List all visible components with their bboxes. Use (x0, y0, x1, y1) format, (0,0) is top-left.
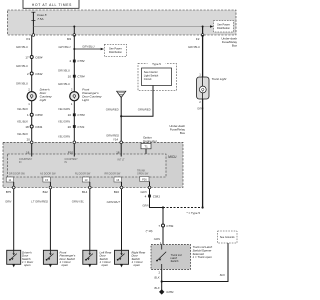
svg-text:18: 18 (116, 151, 120, 155)
svg-text:* = Type 5: * = Type 5 (187, 211, 201, 215)
svg-text:Y14: Y14 (113, 137, 118, 141)
driver's door switch (7, 250, 35, 267)
svg-text:GRN/YEL: GRN/YEL (72, 200, 85, 204)
svg-text:MICU: MICU (168, 155, 177, 159)
arrow into see power distribution (210, 25, 213, 28)
svg-text:See Power: See Power (109, 46, 122, 50)
svg-text:Distribution: Distribution (109, 50, 123, 54)
boundary circle GRN/RED wire (120, 141, 123, 144)
svg-text:F2: F2 (196, 37, 200, 41)
svg-text:GRY/BLU: GRY/BLU (16, 82, 29, 86)
junction F2 drop (202, 26, 204, 28)
ground G701 (159, 289, 174, 294)
svg-text:YEL/BLK: YEL/BLK (17, 107, 28, 111)
svg-text:10: 10 (68, 113, 72, 117)
ground wire from see grounds box (162, 243, 228, 282)
svg-text:LT GRN/RED: LT GRN/RED (31, 200, 48, 204)
svg-text:See Power: See Power (217, 22, 230, 26)
svg-text:Light: Light (40, 98, 47, 102)
svg-text:YEL/GRN: YEL/GRN (58, 107, 71, 111)
svg-text:GRY/BLU: GRY/BLU (58, 45, 71, 49)
svg-text:G701: G701 (166, 290, 174, 294)
svg-text:YEL/BLK: YEL/BLK (17, 132, 28, 136)
svg-text:OPEN SW: OPEN SW (137, 173, 149, 176)
connector C581 (145, 194, 161, 198)
connector C791 (146, 224, 174, 233)
junction M3 drop (73, 26, 75, 28)
svg-text:17: 17 (25, 55, 29, 59)
svg-text:GRN: GRN (197, 106, 204, 110)
boundary circle wire A (12, 186, 15, 189)
svg-text:Light: Light (82, 98, 89, 102)
svg-text:open: open (102, 263, 109, 267)
svg-text:B12: B12 (43, 190, 49, 194)
svg-text:20: 20 (27, 137, 31, 141)
connector C650 (27, 113, 43, 117)
connector circle at K3 boundary (32, 34, 35, 37)
svg-text:RL DOOR SW: RL DOOR SW (75, 173, 91, 176)
svg-text:1 = Trunk open: 1 = Trunk open (193, 255, 213, 259)
svg-text:Circuit: Circuit (144, 77, 152, 81)
junction BLK (161, 280, 163, 282)
boundary circle wire E (148, 186, 151, 189)
svg-text:10: 10 (68, 74, 72, 78)
connector circle at F2 boundary (201, 34, 204, 37)
svg-text:C654: C654 (35, 55, 43, 59)
svg-text:YEL/GRN: YEL/GRN (58, 120, 71, 124)
svg-text:P26: P26 (142, 178, 147, 182)
svg-text:HOT AT ALL TIMES: HOT AT ALL TIMES (32, 3, 72, 7)
connector C632 (27, 72, 43, 76)
driver's door courtesy light (27, 88, 52, 102)
svg-text:Box: Box (232, 44, 238, 48)
connector C721 (68, 125, 85, 129)
svg-text:C783: C783 (77, 113, 85, 117)
see interior light switch circuit box (142, 68, 172, 86)
svg-text:GRN: GRN (142, 204, 149, 208)
MICU internal text courtesy in col2 (65, 158, 79, 164)
junction dot type5 branch (162, 206, 164, 208)
svg-text:DR DOOR SW: DR DOOR SW (9, 173, 26, 176)
option connector T1 (141, 143, 151, 148)
wire from interior light switch box down (121, 86, 153, 117)
svg-text:GRN/WHT: GRN/WHT (107, 200, 121, 204)
svg-text:YEL/GRN: YEL/GRN (58, 134, 71, 138)
svg-text:GRY/BLU: GRY/BLU (58, 82, 71, 86)
wire: power bus horizontal (33, 26, 211, 28)
svg-text:C581: C581 (153, 194, 161, 198)
svg-text:7.5A: 7.5A (37, 17, 43, 21)
wire col1 from K3 down to light (31, 35, 33, 92)
trunk lid latch switch box (151, 245, 191, 270)
wire A down from pin 11 (13, 182, 15, 250)
arrowhead branch (101, 48, 104, 51)
trunk light (197, 77, 227, 99)
svg-text:20: 20 (68, 125, 72, 129)
svg-text:B75: B75 (6, 190, 12, 194)
svg-text:P10: P10 (68, 150, 73, 154)
svg-text:GRY/BLU: GRY/BLU (16, 45, 29, 49)
svg-text:GRY/BLU: GRY/BLU (82, 44, 95, 48)
label trunk lid latch switch (193, 245, 213, 259)
MICU pin box 11 (6, 177, 14, 182)
svg-text:open: open (62, 263, 69, 267)
MICU box (8, 154, 167, 177)
splice triangle (interior light circuit) (117, 91, 126, 97)
svg-text:B16: B16 (114, 190, 120, 194)
svg-text:Type 5: Type 5 (152, 62, 161, 66)
label option connector (143, 135, 157, 142)
svg-text:K3: K3 (26, 37, 30, 41)
label under-dash fuse/relay box (middle) (169, 124, 185, 135)
svg-text:IN: IN (65, 161, 68, 164)
wire: fuse to K3 exit (32, 21, 34, 35)
connector C782 (69, 59, 85, 63)
MICU pin box 13 (82, 177, 90, 182)
wire col2 from M3 to light (73, 35, 75, 92)
dashed type5 wire to trunk light (163, 207, 203, 209)
under-dash fuse/relay box (middle outer) (3, 142, 183, 187)
MICU pin box 16 (114, 177, 122, 182)
svg-text:(* 10): (* 10) (146, 229, 153, 233)
wire col1 below light to MICU (31, 100, 33, 156)
boundary circle wire B (49, 186, 52, 189)
under-dash fuse/relay box (top) (8, 10, 237, 35)
svg-text:C631: C631 (35, 125, 43, 129)
svg-text:RR DOOR SW: RR DOOR SW (105, 173, 122, 176)
svg-text:BLK: BLK (154, 276, 159, 280)
title box HOT AT ALL TIMES (23, 0, 79, 8)
junction on col2 for branch (73, 48, 75, 50)
svg-text:open: open (24, 263, 31, 267)
fuse 8 (7.5A) (31, 12, 46, 21)
wire col2 below light to MICU (73, 100, 75, 156)
label under-dash fuse/relay box (top) (221, 37, 237, 48)
svg-text:C721: C721 (77, 125, 85, 129)
boundary circle col2 (73, 141, 76, 144)
connector C654 (25, 55, 42, 59)
connector C631 (25, 125, 42, 129)
front passenger's door courtesy light (70, 88, 102, 102)
left rear door switch (83, 250, 113, 267)
trunk light wire to type5 junction (202, 99, 204, 208)
svg-text:C784: C784 (77, 74, 85, 78)
wire from triangle down to MICU (120, 98, 122, 157)
see grounds box (218, 231, 238, 243)
right rear door switch (115, 250, 147, 267)
wire E trunk latch from P26 (150, 182, 164, 245)
svg-text:C782: C782 (77, 59, 85, 63)
boundary circle wire C (89, 186, 92, 189)
MICU pin box P26 (140, 177, 149, 182)
svg-text:Box: Box (180, 131, 186, 135)
svg-text:AS DOOR SW: AS DOOR SW (40, 173, 56, 176)
see power distribution box (top right) (214, 21, 234, 33)
svg-text:Trunk Light: Trunk Light (212, 77, 227, 81)
wire: drop to F2 (202, 27, 204, 36)
svg-text:C650: C650 (35, 113, 43, 117)
wire trunk latch to ground (161, 270, 163, 292)
svg-text:YEL/BLK: YEL/BLK (17, 120, 28, 124)
MICU pin box 15 (43, 177, 51, 182)
svg-text:Switch: Switch (171, 259, 179, 263)
see power distribution box (mid) (104, 44, 126, 56)
junction GRN/RED merge (120, 115, 122, 117)
svg-text:T1: T1 (144, 145, 148, 149)
trunk light wire down (202, 35, 204, 77)
svg-text:GRN/RED: GRN/RED (106, 108, 119, 112)
type 5 dashed box (138, 62, 177, 91)
wire branch to see power distribution (74, 48, 102, 50)
svg-text:BLK: BLK (154, 286, 159, 290)
svg-text:Connector: Connector (143, 139, 157, 143)
connector C783 (68, 113, 85, 117)
svg-text:C791: C791 (166, 224, 174, 228)
svg-text:16: 16 (26, 150, 30, 154)
svg-text:Distribution: Distribution (217, 26, 231, 30)
connector circle at M3 boundary (73, 34, 76, 37)
wire B down from pin 15 (49, 182, 51, 250)
svg-text:See Interior: See Interior (144, 70, 158, 74)
junction dot trunk light wire end (202, 206, 204, 208)
svg-text:open: open (134, 263, 141, 267)
wire D down from pin 16 (121, 182, 123, 250)
svg-text:GRN/RED: GRN/RED (138, 108, 151, 112)
svg-text:IN: IN (19, 161, 22, 164)
svg-text:BLK: BLK (220, 273, 225, 277)
svg-text:GRY/BLU: GRY/BLU (58, 69, 71, 73)
svg-text:INT LT: INT LT (118, 158, 126, 161)
MICU internal text TRUNK OPEN SW (137, 170, 149, 176)
connector C784 (68, 74, 85, 78)
boundary circle col1 (30, 141, 33, 144)
wire T1 stub (145, 149, 147, 154)
front passenger's door switch (43, 250, 75, 267)
svg-text:C632: C632 (35, 72, 43, 76)
svg-text:GRY/BLU: GRY/BLU (16, 64, 29, 68)
svg-text:B14: B14 (82, 190, 88, 194)
svg-text:See Grounds: See Grounds (220, 236, 235, 239)
wire: drop to M3 (73, 27, 75, 36)
svg-text:GRN: GRN (5, 200, 12, 204)
wire C down from pin 13 (89, 182, 91, 250)
svg-text:Light Switch: Light Switch (144, 74, 159, 78)
MICU internal text courtesy in col1 (19, 158, 33, 164)
svg-text:M3: M3 (67, 37, 71, 41)
svg-text:GRY/BLU: GRY/BLU (188, 45, 201, 49)
svg-text:18: 18 (25, 125, 29, 129)
boundary circle wire D (120, 186, 123, 189)
